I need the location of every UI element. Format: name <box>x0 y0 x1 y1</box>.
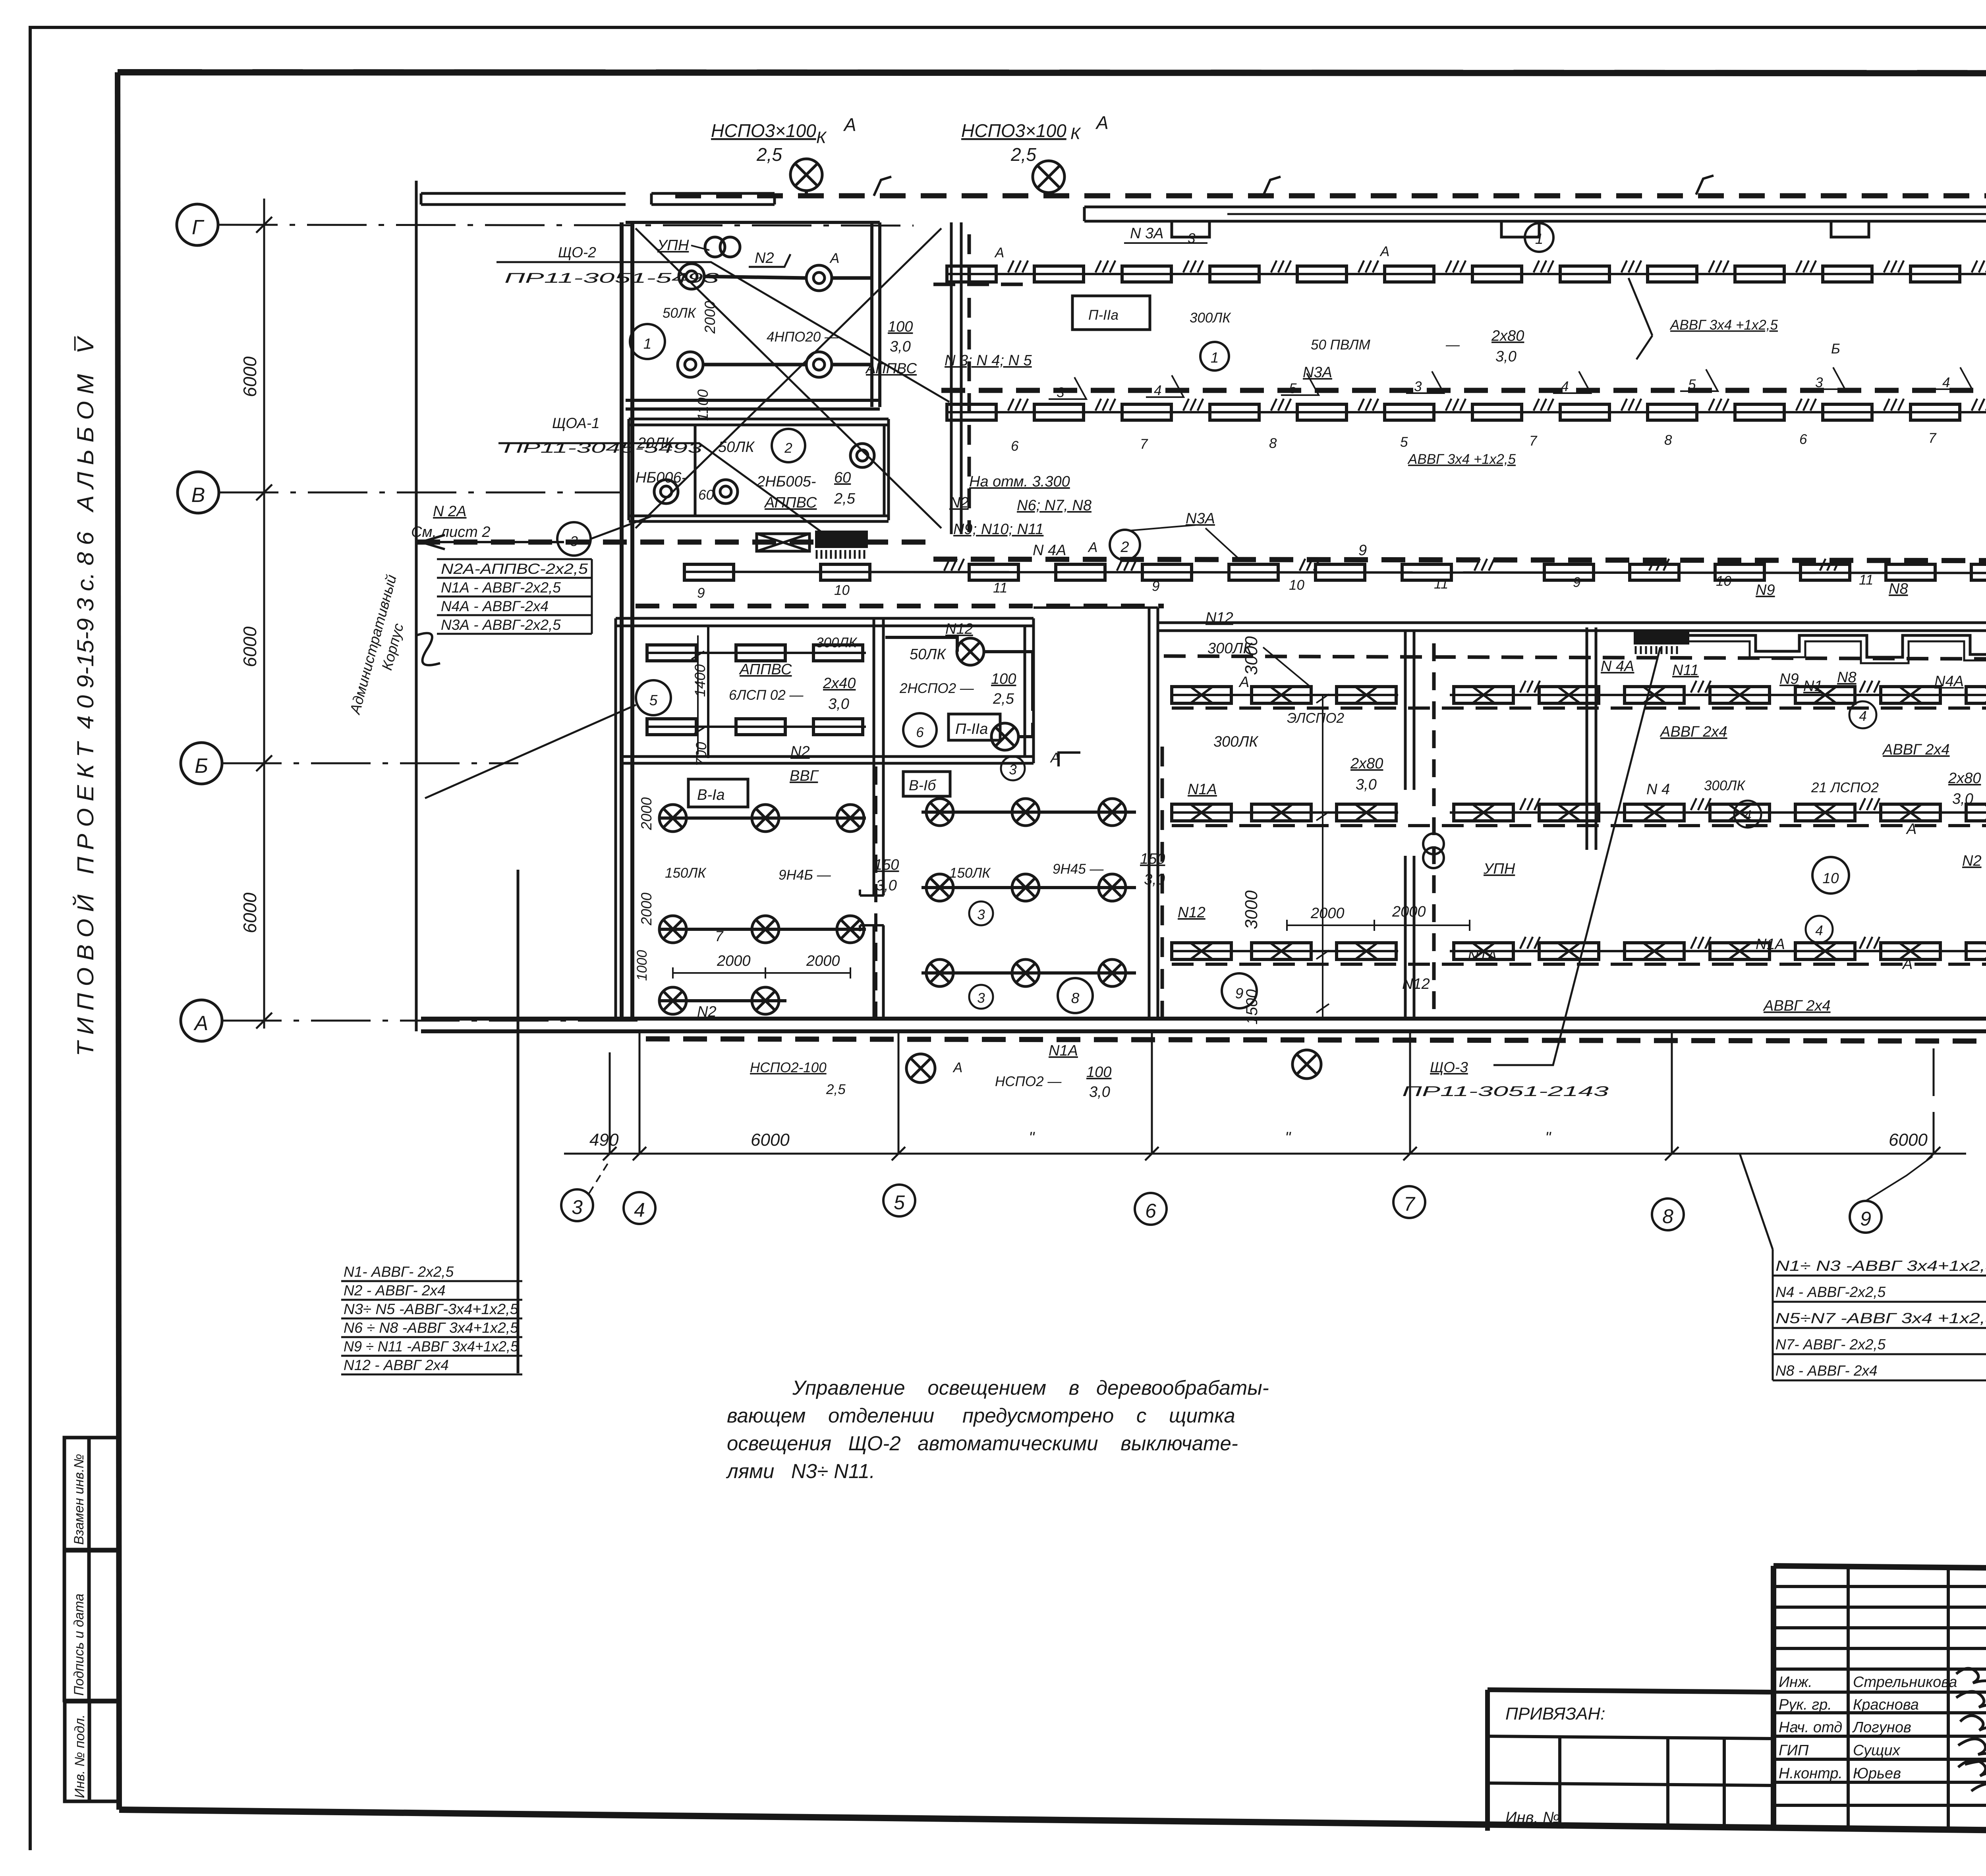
lamp room1 d (x2062,y918) <box>806 352 832 377</box>
lower band X-fixture row y2395 right room <box>1450 950 1986 952</box>
left extension grid verticals <box>1560 1737 1724 1828</box>
luminaire PVLM row2 at x2446 y1038 <box>947 404 996 420</box>
svg-text:2х80: 2х80 <box>1948 770 1981 787</box>
svg-text:Инв. №: Инв. № <box>1505 1809 1560 1826</box>
lamp room8 (x2582,y2045) <box>1012 799 1039 826</box>
luminaire PVLM row2 at x4871 y1038 <box>1911 404 1960 420</box>
svg-text:3: 3 <box>977 990 985 1006</box>
west wall of building <box>622 222 632 1019</box>
svg-text:В-Iб: В-Iб <box>909 777 936 793</box>
svg-text:2,5: 2,5 <box>993 691 1014 707</box>
svg-text:100: 100 <box>888 318 913 335</box>
svg-text:П-IIа: П-IIа <box>955 721 988 737</box>
room 5 west wall lower <box>614 618 617 1019</box>
svg-text:НБ006-: НБ006- <box>636 469 686 486</box>
top band wall (right part, roof edge with tabs) <box>1084 207 1986 221</box>
feeder dashed below row3 right <box>933 559 1986 561</box>
lamp НСПО3x100 right (x2640,y445) <box>1033 161 1064 193</box>
vertical dashed feeder x2926 <box>1161 747 1164 1017</box>
vertical wall right of room1/2 (corridor) <box>951 222 961 534</box>
svg-text:300ЛК: 300ЛК <box>816 635 858 650</box>
circled 1 (room number) <box>630 324 665 359</box>
dim vertical line x3330 <box>1322 695 1323 1017</box>
УПН transformer symbol <box>705 237 725 257</box>
axis Г dash-dot line <box>218 225 914 226</box>
svg-text:N3А - АВВГ-2х2,5: N3А - АВВГ-2х2,5 <box>441 617 561 633</box>
room6 wiring <box>885 637 1033 737</box>
svg-text:П-IIа: П-IIа <box>1088 307 1119 323</box>
svg-text:N2: N2 <box>697 1004 717 1020</box>
wire marks at x4540 <box>1796 399 1816 411</box>
svg-text:3: 3 <box>1009 762 1017 778</box>
black panel ЩО-3 <box>1634 629 1689 645</box>
svg-text:6ЛСП 02 —: 6ЛСП 02 — <box>729 687 804 703</box>
svg-text:N9; N10; N11: N9; N10; N11 <box>953 521 1043 538</box>
svg-text:100: 100 <box>991 671 1016 687</box>
svg-text:6000: 6000 <box>240 892 260 933</box>
luminaire row3 (corridor) at x3950 y1441 <box>1544 564 1594 580</box>
lamp 9Н4Б room7 (x1927,y2340) <box>752 916 779 943</box>
signature table verticals <box>1848 1566 1986 1831</box>
svg-text:10: 10 <box>1289 577 1304 593</box>
lower band X-fixture row y2046 left room <box>1172 811 1398 814</box>
luminaire PVLM row2 at x3769 y1038 <box>1472 404 1522 420</box>
svg-text:1100: 1100 <box>695 389 711 421</box>
svg-text:150ЛК: 150ЛК <box>949 865 991 881</box>
wire marks at x2395 <box>944 559 964 571</box>
lamp room8 (x2800,y2235) <box>1099 874 1126 901</box>
svg-text:9Н45 —: 9Н45 — <box>1053 861 1104 877</box>
svg-text:5: 5 <box>894 1191 905 1214</box>
wire row 2 line <box>947 411 1986 413</box>
lamp room1 c (x1738,y918) <box>678 352 703 377</box>
В-I boxes <box>688 779 748 807</box>
svg-text:N 4А: N 4А <box>1601 658 1634 675</box>
stamp box: инв № подл <box>65 1702 119 1801</box>
svg-text:2: 2 <box>784 440 792 456</box>
svg-text:УПН: УПН <box>657 237 689 254</box>
column extension lines <box>610 1033 1934 1154</box>
svg-text:Краснова: Краснова <box>1853 1697 1919 1713</box>
svg-text:7: 7 <box>1140 436 1148 452</box>
svg-text:2000: 2000 <box>638 797 655 830</box>
svg-text:3,0: 3,0 <box>890 338 911 355</box>
svg-text:Юрьев: Юрьев <box>1853 1765 1901 1782</box>
svg-text:3,0: 3,0 <box>828 696 849 712</box>
svg-text:освещения ЩО-2 автоматичес: освещения ЩО-2 автоматическими выключате… <box>727 1432 1238 1455</box>
svg-text:Б: Б <box>195 755 208 778</box>
svg-text:ЩО-3: ЩО-3 <box>1430 1059 1468 1075</box>
axis Б dash-dot line <box>222 762 518 764</box>
svg-text:А: А <box>1902 956 1913 973</box>
svg-text:В: В <box>191 484 205 507</box>
svg-text:Логунов: Логунов <box>1852 1719 1911 1736</box>
wire marks at x3217 <box>1271 261 1291 272</box>
luminaire row3 (corridor) at x5025 y1441 <box>1971 564 1986 580</box>
svg-text:вающем отделении предус: вающем отделении предусмотрено с щитка <box>727 1404 1235 1427</box>
svg-text:6: 6 <box>1011 438 1019 454</box>
wire marks at x3290 <box>1300 559 1319 571</box>
room8 wire row y2450 <box>922 971 1136 975</box>
inner frame bottom <box>119 1810 1986 1837</box>
lamp room8 (x2800,y2045) <box>1099 799 1126 826</box>
luminaire PVLM row1 at x3769 y690 <box>1472 266 1522 282</box>
wire marks at x4761 <box>1884 399 1904 411</box>
svg-text:50 ПВЛМ: 50 ПВЛМ <box>1311 337 1371 353</box>
dashed feeder below row y2046 <box>1172 824 1986 827</box>
labels row3 numbers <box>697 571 1986 601</box>
svg-text:N 3А: N 3А <box>1130 225 1163 242</box>
svg-text:N1: N1 <box>1803 678 1823 695</box>
door portal on x2205 wall <box>860 890 884 931</box>
svg-text:21 ЛСПО2: 21 ЛСПО2 <box>1811 780 1879 795</box>
svg-text:3: 3 <box>570 534 578 549</box>
svg-text:300ЛК: 300ЛК <box>1704 778 1746 793</box>
svg-text:10: 10 <box>1716 573 1731 589</box>
svg-text:ПР11-3051-5493: ПР11-3051-5493 <box>504 270 719 286</box>
svg-text:300ЛК: 300ЛК <box>1213 733 1259 750</box>
feeder dashed mid hall <box>941 388 1986 393</box>
wire row 3 line <box>685 572 1986 573</box>
room1 wires bottom <box>703 363 872 367</box>
feeder dashed y1526 <box>636 604 1164 608</box>
svg-text:N1- АВВГ- 2х2,5: N1- АВВГ- 2х2,5 <box>344 1264 454 1280</box>
svg-text:N1А: N1А <box>1468 948 1497 965</box>
room7 wire row y2340 <box>659 928 866 931</box>
svg-text:1400: 1400 <box>692 664 708 697</box>
svg-text:АВВГ 2х4: АВВГ 2х4 <box>1882 741 1950 758</box>
wire marks at x4099 <box>1621 261 1641 272</box>
svg-text:2000: 2000 <box>717 953 751 969</box>
room10 west wall stub x4005 <box>1587 627 1596 850</box>
svg-text:N12 - АВВГ 2х4: N12 - АВВГ 2х4 <box>344 1357 449 1373</box>
svg-text:А: А <box>1379 244 1389 259</box>
lamp room8 (x2366,y2235) <box>926 874 953 901</box>
luminaire row3 (corridor) at x3156 y1441 <box>1229 564 1278 580</box>
svg-text:20ЛК: 20ЛК <box>637 435 674 452</box>
svg-text:N12: N12 <box>945 621 973 637</box>
luminaire PVLM row1 at x3548 y690 <box>1385 266 1434 282</box>
svg-text:5: 5 <box>649 692 658 708</box>
svg-text:2НСПО2 —: 2НСПО2 — <box>899 681 974 696</box>
column circle 6 <box>1135 1193 1167 1225</box>
room 1 (электрощитовая) walls <box>626 222 880 409</box>
black panel ЩО-2 <box>815 531 868 548</box>
svg-text:3,0: 3,0 <box>876 877 897 894</box>
svg-text:НСПО2-100: НСПО2-100 <box>750 1060 827 1075</box>
svg-text:2х80: 2х80 <box>1491 328 1524 344</box>
lamp 9Н4Б room7 (x1694,y2340) <box>659 916 686 943</box>
lamp НСПО3x100 left (x2030,y440) <box>790 159 822 191</box>
cable list bottom-right (5 rows) <box>1775 1258 1986 1379</box>
svg-text:N4А: N4А <box>1934 673 1964 690</box>
note paragraph <box>726 1376 1269 1482</box>
luminaire PVLM row1 at x2887 y690 <box>1122 266 1171 282</box>
bowtie device <box>757 534 809 551</box>
svg-text:N9: N9 <box>1779 671 1799 687</box>
column circle 5 <box>883 1185 915 1216</box>
wire marks at x4600 <box>1820 559 1840 571</box>
svg-text:N12: N12 <box>1402 976 1430 992</box>
vertical dashed feeder x2440 (corridor) <box>968 234 971 532</box>
svg-text:150ЛК: 150ЛК <box>665 865 707 881</box>
inner frame top <box>118 72 1986 73</box>
svg-text:N1А: N1А <box>1756 936 1785 953</box>
svg-text:8: 8 <box>1071 990 1080 1006</box>
svg-text:5: 5 <box>1688 377 1696 392</box>
svg-text:ПР11-3051-2143: ПР11-3051-2143 <box>1402 1084 1609 1099</box>
svg-text:10: 10 <box>834 583 850 598</box>
middle block top wall y1530 <box>1034 606 1158 609</box>
заточный labels <box>636 680 671 715</box>
svg-text:N12: N12 <box>1178 904 1206 921</box>
luminaire PVLM row1 at x2446 y690 <box>947 266 996 282</box>
svg-text:N12: N12 <box>1206 610 1233 626</box>
svg-text:ЩО-2: ЩО-2 <box>558 244 596 261</box>
svg-text:А: А <box>829 251 839 266</box>
lower band X-fixture row y1750 right room <box>1450 694 1986 696</box>
switch ids circled 3 <box>1001 757 1025 780</box>
svg-text:N8 - АВВГ- 2х4: N8 - АВВГ- 2х4 <box>1775 1363 1878 1379</box>
vertical feeder x3610 <box>1432 643 1436 1017</box>
svg-text:АВВГ 3х4 +1х2,5: АВВГ 3х4 +1х2,5 <box>1407 452 1516 467</box>
svg-text:6000: 6000 <box>751 1130 790 1150</box>
svg-text:2000: 2000 <box>638 892 655 926</box>
room 5/6 top wall <box>616 618 1034 626</box>
svg-text:150: 150 <box>874 857 899 873</box>
luminaire PVLM row1 at x3328 y690 <box>1297 266 1347 282</box>
svg-text:Г: Г <box>192 216 205 239</box>
svg-text:9: 9 <box>697 585 705 601</box>
dashed feeder under meander <box>1164 656 1986 659</box>
wiring marks row y2046 <box>1520 798 1540 810</box>
big X cross over rooms 1-2 <box>636 228 941 528</box>
feeder dashed row1 upper <box>933 283 1033 286</box>
lamp NSPO2 room6 a (x2443,y1641) <box>957 638 984 665</box>
wire marks at x4761 <box>1884 261 1904 272</box>
lower band X-fixture row y1750 left room <box>1172 694 1398 696</box>
svg-text:Сущих: Сущих <box>1853 1742 1901 1759</box>
svg-text:А: А <box>1088 540 1097 555</box>
vertical wire x2205 room6 wall area <box>874 766 877 1017</box>
lamp stem right <box>1047 193 1050 196</box>
wire marks at x2776 <box>1095 399 1115 411</box>
svg-text:6000: 6000 <box>240 626 260 667</box>
svg-text:150: 150 <box>1140 851 1165 867</box>
bottom dimension line <box>564 1153 1966 1155</box>
svg-text:К: К <box>816 128 827 147</box>
bottom dim ticks <box>603 1147 1940 1160</box>
dashed feeder below row y1750 <box>1172 706 1986 710</box>
svg-text:N6 ÷ N8 -АВВГ 3х4+1х2,5: N6 ÷ N8 -АВВГ 3х4+1х2,5 <box>344 1320 518 1336</box>
svg-text:N1А - АВВГ-2х2,5: N1А - АВВГ-2х2,5 <box>441 579 561 596</box>
svg-text:8: 8 <box>1269 436 1277 451</box>
svg-text:": " <box>1029 1129 1035 1146</box>
svg-text:—: — <box>1445 337 1460 353</box>
column circle 9 <box>1850 1201 1882 1233</box>
svg-text:5: 5 <box>1400 434 1408 450</box>
svg-text:50ЛК: 50ЛК <box>663 305 697 321</box>
svg-text:3: 3 <box>572 1196 583 1218</box>
signature table horizontals <box>1773 1586 1986 1805</box>
stamp box: подпись и дата <box>64 1551 119 1700</box>
thin partition wall x3548 upper <box>1405 631 1414 790</box>
svg-text:2000: 2000 <box>806 953 840 969</box>
room1 wires top <box>704 276 872 278</box>
svg-text:2: 2 <box>1120 539 1129 556</box>
title block outline <box>1773 1566 1986 1831</box>
svg-text:Рук. гр.: Рук. гр. <box>1779 1697 1832 1713</box>
cable list mid-left (4 rows) <box>441 561 588 633</box>
svg-text:N2А-АППВС-2х2,5: N2А-АППВС-2х2,5 <box>441 561 588 577</box>
svg-text:3,0: 3,0 <box>1356 776 1377 793</box>
svg-text:11: 11 <box>1434 576 1448 592</box>
svg-text:3: 3 <box>1188 231 1196 246</box>
svg-text:Нач. отд: Нач. отд <box>1779 1719 1842 1736</box>
wire marks at x2997 <box>1183 261 1203 272</box>
svg-text:50ЛК: 50ЛК <box>910 646 947 663</box>
svg-text:УПН: УПН <box>1483 861 1515 877</box>
класс box П-IIа <box>1072 296 1150 330</box>
luminaire PVLM row2 at x4430 y1038 <box>1735 404 1784 420</box>
svg-text:А: А <box>1095 112 1109 133</box>
svg-text:3000: 3000 <box>1242 890 1261 929</box>
svg-text:Управление освещением в: Управление освещением в деревообрабаты- <box>792 1376 1269 1399</box>
svg-text:N4 - АВВГ-2х2,5: N4 - АВВГ-2х2,5 <box>1775 1284 1886 1300</box>
svg-text:N2: N2 <box>949 494 969 511</box>
svg-text:N 4: N 4 <box>1646 781 1670 798</box>
svg-text:N11: N11 <box>1672 662 1699 679</box>
svg-text:N 4А: N 4А <box>1033 542 1066 559</box>
svg-text:На отм. 3.300: На отм. 3.300 <box>969 473 1070 490</box>
lamp room3 (x1677,y1238) <box>654 480 678 504</box>
svg-text:А: А <box>1238 674 1249 691</box>
svg-text:9: 9 <box>1573 575 1580 590</box>
south (bottom) wall double <box>421 1019 1986 1031</box>
wall between room5/7 and room6/8 (x2205) <box>874 618 883 1019</box>
luminaire PVLM row1 at x4651 y690 <box>1823 266 1872 282</box>
luminaire row3 (corridor) at x2502 y1441 <box>969 564 1018 580</box>
wire marks at x2556 <box>1008 399 1028 411</box>
svg-text:N6; N7, N8: N6; N7, N8 <box>1017 497 1092 514</box>
luminaire LSP02 at x2110 y1830 <box>813 719 863 735</box>
luminaire PVLM row1 at x3989 y690 <box>1560 266 1609 282</box>
wire marks at x4540 <box>1796 261 1816 272</box>
svg-text:3: 3 <box>1057 385 1064 400</box>
comb hatch below ЩО-3 <box>1636 646 1677 654</box>
svg-text:N5÷N7 -АВВГ 3х4 +1х2,5: N5÷N7 -АВВГ 3х4 +1х2,5 <box>1775 1310 1986 1326</box>
svg-text:N1÷ N3 -АВВГ 3х4+1х2,5: N1÷ N3 -АВВГ 3х4+1х2,5 <box>1775 1258 1986 1274</box>
luminaire PVLM row1 at x4430 y690 <box>1735 266 1784 282</box>
luminaire PVLM row2 at x4210 y1038 <box>1648 404 1697 420</box>
top band wall (middle door piece) <box>651 193 775 205</box>
svg-text:7: 7 <box>1404 1193 1416 1215</box>
left extension box ПРИВЯЗАН <box>1488 1690 1773 1831</box>
svg-text:4: 4 <box>1154 383 1161 398</box>
svg-text:А: А <box>994 245 1004 261</box>
wire marks at x2997 <box>1183 399 1203 411</box>
svg-text:ЩОА-1: ЩОА-1 <box>552 415 600 431</box>
svg-text:4: 4 <box>1561 379 1569 394</box>
lamp room8 (x2582,y2235) <box>1012 874 1039 901</box>
left margin vertical title: ТИПОВОЙ ПРОЕКТ 409-15-93с.86 АЛЬБОМ V <box>73 335 99 1056</box>
column circle 3 <box>561 1189 593 1221</box>
wire marks at x2776 <box>1095 261 1115 272</box>
luminaire PVLM row2 at x3548 y1038 <box>1385 404 1434 420</box>
roof band column tabs <box>1172 221 1869 237</box>
stamp box: взамен инв <box>64 1438 118 1550</box>
svg-text:3,0: 3,0 <box>1089 1084 1110 1100</box>
leader to column 3 <box>589 1164 608 1193</box>
axis А circle <box>181 1000 222 1041</box>
svg-text:N1А: N1А <box>1188 781 1217 798</box>
svg-text:9: 9 <box>1358 542 1367 559</box>
luminaire row3 (corridor) at x4380 y1441 <box>1715 564 1764 580</box>
wire row 1 line <box>947 273 1986 275</box>
svg-text:В-Iа: В-Iа <box>697 787 725 803</box>
wiring marks row y2395 <box>1520 937 1540 949</box>
wire marks at x4170 <box>1649 559 1669 571</box>
svg-text:А: А <box>1906 821 1916 838</box>
svg-text:10: 10 <box>1822 870 1839 886</box>
top band wall (left part) <box>421 193 626 205</box>
rooms 2-3 block walls <box>629 419 889 521</box>
lower band X-fixture row y2046 right room <box>1450 811 1986 814</box>
column circle 8 <box>1652 1199 1684 1230</box>
lamp НБ006 room1 b (x2062,y700) <box>806 265 832 291</box>
wire marks at x3438 <box>1358 261 1378 272</box>
signature squiggles <box>1956 1668 1986 1794</box>
wall below rooms 5/6 <box>624 757 1034 763</box>
top wall of lower-middle rooms y1580 (x2915-5262) <box>1158 623 1986 631</box>
svg-text:А: А <box>193 1012 209 1035</box>
svg-text:2х80: 2х80 <box>1350 755 1383 772</box>
svg-text:N9: N9 <box>1756 582 1775 598</box>
svg-text:9: 9 <box>1152 579 1159 594</box>
lamp 9Н4Б room7 (x1927,y2060) <box>752 805 779 832</box>
room8 wire row y2235 <box>922 886 1136 889</box>
svg-text:300ЛК: 300ЛК <box>1190 310 1231 326</box>
svg-text:N8: N8 <box>1837 669 1857 686</box>
svg-text:700: 700 <box>693 742 709 766</box>
lamp room8 (x2366,y2450) <box>926 959 953 986</box>
lamp 9Н4Б room7 (x2141,y2340) <box>837 916 864 943</box>
lamp room2 b (x2171,y1147) <box>850 444 874 467</box>
thin partition wall x3548 lower <box>1405 856 1414 1019</box>
svg-text:N2 - АВВГ- 2х4: N2 - АВВГ- 2х4 <box>344 1282 446 1299</box>
luminaire row3 (corridor) at x1785 y1441 <box>684 564 734 580</box>
svg-text:4: 4 <box>1859 708 1866 724</box>
room5 dim line vertical <box>692 635 704 755</box>
luminaire row3 (corridor) at x4165 y1441 <box>1630 564 1679 580</box>
lamp room8 (x2366,y2045) <box>926 799 953 826</box>
luminaire LSP02 at x1915 y1644 <box>736 645 785 661</box>
svg-text:7: 7 <box>1529 433 1538 449</box>
luminaire row3 (corridor) at x3374 y1441 <box>1316 564 1365 580</box>
svg-text:4: 4 <box>1744 808 1751 823</box>
svg-text:4: 4 <box>1942 375 1950 390</box>
svg-text:N3÷ N5 -АВВГ-3х4+1х2,5: N3÷ N5 -АВВГ-3х4+1х2,5 <box>344 1301 518 1317</box>
svg-text:НСПО2 —: НСПО2 — <box>995 1074 1062 1089</box>
room 6 east wall <box>1025 618 1034 763</box>
svg-text:N3А: N3А <box>1303 364 1332 381</box>
заточный wire row y1644 <box>649 652 866 654</box>
lower band X-fixture row y2395 left room <box>1172 950 1398 952</box>
svg-text:Инв. № подл.: Инв. № подл. <box>72 1714 87 1798</box>
svg-text:А: А <box>952 1060 962 1075</box>
svg-text:Б: Б <box>1831 341 1840 357</box>
feeder dashed below row3 <box>416 540 933 545</box>
